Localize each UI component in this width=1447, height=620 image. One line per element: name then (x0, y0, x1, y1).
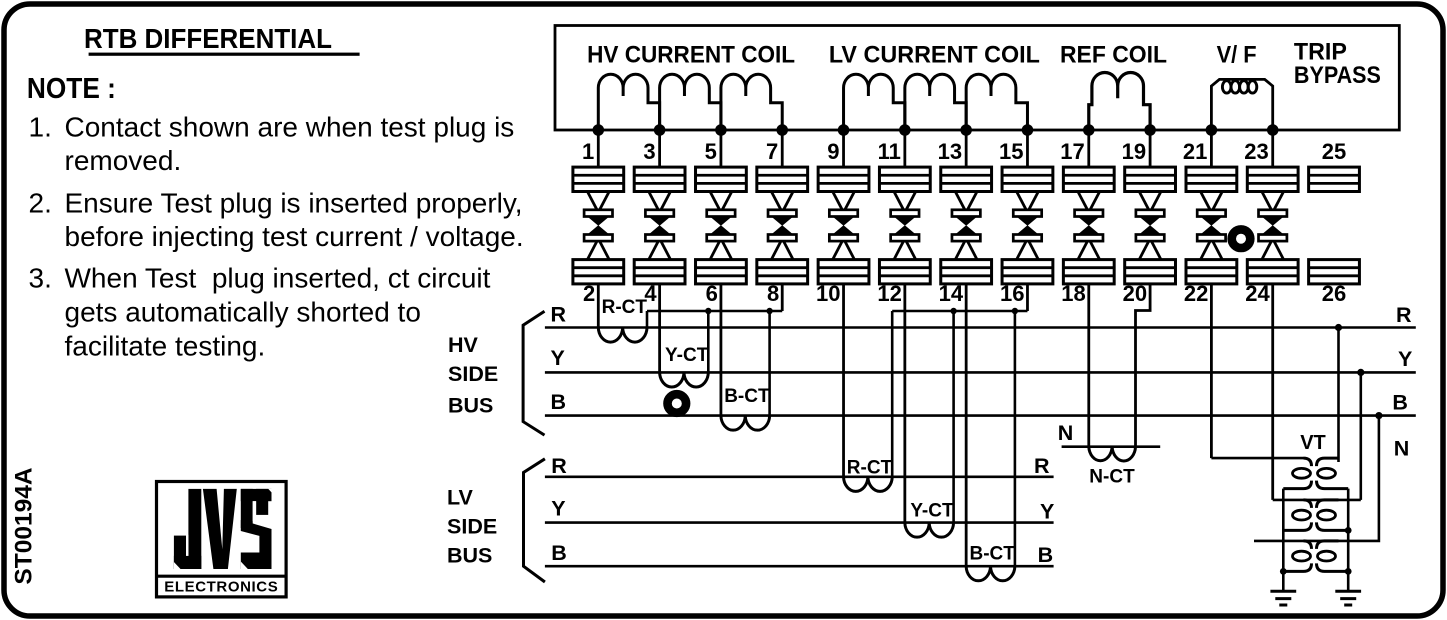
wire terminal 24 to VT (1271, 284, 1274, 500)
node LV link/B-CT junction (1012, 308, 1018, 314)
wire HV bus B (545, 414, 1416, 417)
node R tap for VT (1335, 324, 1342, 331)
svg-text:Y: Y (551, 346, 565, 370)
svg-text:before injecting test current: before injecting test current / voltage. (65, 221, 524, 252)
VT winding row2 right (1317, 500, 1349, 531)
svg-text:23: 23 (1244, 139, 1268, 164)
svg-text:17: 17 (1060, 139, 1084, 164)
wire terminal 16 to CT link (1026, 284, 1029, 311)
node terminal 5 junction (715, 124, 727, 136)
wire N line (1062, 445, 1161, 448)
svg-text:21: 21 (1183, 139, 1207, 164)
terminal block 17 (1063, 167, 1114, 191)
svg-text:11: 11 (878, 139, 901, 164)
svg-text:RTB DIFFERENTIAL: RTB DIFFERENTIAL (84, 23, 332, 54)
terminal block 2 (573, 260, 624, 284)
svg-text:B: B (1038, 543, 1054, 567)
svg-text:B-CT: B-CT (724, 386, 770, 407)
wire to terminal 13 (965, 130, 968, 167)
REF coil (terminals 17-19) (1089, 72, 1150, 130)
svg-text:ST00194A: ST00194A (11, 467, 38, 584)
svg-text:R: R (1396, 303, 1412, 327)
HV side bus bracket (523, 311, 544, 435)
node terminal 3 junction (654, 124, 666, 136)
wire terminal 12 to LV Y bus (903, 284, 906, 523)
svg-text:gets automatically shorted to: gets automatically shorted to (65, 297, 421, 328)
terminal block 1 (573, 167, 624, 191)
terminal block 5 (696, 167, 747, 191)
test contact 11/12 (891, 192, 919, 260)
node terminal 19 junction (1144, 124, 1156, 136)
wire terminal 8 to CT link (781, 284, 784, 311)
wire terminal 14 to LV B bus (965, 284, 968, 566)
mounting hole (HV bus area) (668, 394, 687, 413)
ground (VT primary star) (1270, 591, 1296, 605)
wire terminal 22 to VT (1210, 284, 1213, 458)
CT Y-CT (HV) (660, 372, 709, 387)
terminal block 24 (1247, 260, 1298, 284)
wire LV bus R (545, 475, 1054, 478)
wire Y-CT return stub (707, 311, 710, 372)
terminal block 3 (634, 167, 685, 191)
test contact 21/22 (1197, 192, 1225, 260)
wire R tap to VT row1 (1337, 328, 1340, 463)
svg-text:R: R (551, 303, 567, 327)
terminal block 9 (818, 167, 869, 191)
test contact 19/20 (1136, 192, 1164, 260)
coil group box (555, 26, 1399, 131)
HV current coil 2 (terminals 3-5) (660, 74, 721, 130)
svg-text:BUS: BUS (447, 544, 492, 568)
svg-text:R: R (551, 454, 567, 478)
wire LV bus Y (545, 521, 1054, 524)
LV current coil 1 (terminals 9-11) (844, 74, 905, 130)
test contact 3/4 (645, 192, 673, 260)
svg-text:SIDE: SIDE (448, 362, 498, 386)
mounting hole (terminal 23 area) (1232, 229, 1251, 248)
svg-text:REF COIL: REF COIL (1060, 42, 1167, 69)
node link/B-CT junction (766, 308, 772, 314)
terminal block 15 (1002, 167, 1053, 191)
wire terminal 6 to B bus (720, 284, 723, 416)
wire HV bus R (545, 326, 1416, 329)
CT R-CT (LV) (844, 477, 893, 492)
node terminal 17 junction (1083, 124, 1095, 136)
wire to terminal 7 (781, 130, 784, 167)
wire terminal 4 to Y bus (658, 284, 661, 373)
JVS Electronics logo (157, 482, 287, 597)
terminal block 18 (1063, 260, 1114, 284)
terminal block 4 (634, 260, 685, 284)
wire terminal 20 to N-CT (1136, 284, 1151, 447)
node VT left bus row3 junction (1280, 568, 1287, 575)
svg-text:B: B (1392, 391, 1408, 415)
terminal block 13 (941, 167, 992, 191)
terminal block 23 (1247, 167, 1298, 191)
svg-text:B: B (551, 390, 567, 414)
wire to terminal 23 (1271, 130, 1274, 167)
wire LV R-CT return stub (891, 311, 894, 477)
wire B tap to VT row3 (1254, 416, 1379, 541)
ground (VT secondary) (1335, 591, 1361, 605)
svg-text:Ensure Test plug is inserted p: Ensure Test plug is inserted properly, (65, 187, 523, 218)
svg-text:SIDE: SIDE (447, 515, 497, 539)
terminal block 25 (1309, 167, 1360, 191)
wire terminal 2 to R bus (597, 284, 600, 328)
test contact 9/10 (829, 192, 857, 260)
terminal block 12 (879, 260, 930, 284)
note list (29, 112, 524, 362)
node VT right bus row2 junction (1345, 527, 1352, 534)
VT winding row1 left (1283, 458, 1311, 489)
svg-text:R-CT: R-CT (602, 297, 648, 318)
svg-text:BYPASS: BYPASS (1294, 62, 1381, 89)
CT B-CT (LV) (966, 566, 1015, 581)
node terminal 23 junction (1267, 124, 1279, 136)
terminal block 22 (1186, 260, 1237, 284)
terminal block 8 (757, 260, 808, 284)
terminal block 7 (757, 167, 808, 191)
svg-text:13: 13 (938, 139, 962, 164)
node terminal 1 junction (593, 124, 605, 136)
svg-text:15: 15 (999, 139, 1023, 164)
svg-text:facilitate testing.: facilitate testing. (65, 331, 266, 362)
wire LV CT star link (892, 310, 1027, 313)
terminal block 19 (1125, 167, 1176, 191)
svg-text:N: N (1058, 421, 1074, 445)
svg-text:When Test plug inserted, ct c: When Test plug inserted, ct circuit (65, 263, 491, 294)
svg-text:V/ F: V/ F (1217, 42, 1257, 69)
svg-text:3.: 3. (29, 263, 52, 294)
terminal block 11 (879, 167, 930, 191)
terminal block 20 (1125, 260, 1176, 284)
VT winding row1 right (1317, 458, 1349, 489)
node terminal 9 junction (838, 124, 850, 136)
wire Y tap to VT row2 (1360, 372, 1363, 500)
wire B-CT return stub (768, 311, 771, 416)
svg-text:Y: Y (1398, 347, 1412, 371)
svg-text:HV CURRENT COIL: HV CURRENT COIL (587, 42, 795, 69)
svg-text:1: 1 (582, 139, 594, 164)
svg-text:B-CT: B-CT (970, 544, 1016, 565)
node VT right bus row3 junction (1345, 568, 1352, 575)
svg-text:N: N (1394, 437, 1410, 461)
wire to terminal 9 (842, 130, 845, 167)
wire terminal 10 to LV R bus (842, 284, 845, 477)
CT R-CT (HV) (598, 328, 647, 343)
node terminal 15 junction (1022, 124, 1034, 136)
wire to terminal 17 (1087, 130, 1090, 167)
svg-text:Y: Y (551, 496, 565, 520)
VT winding row3 left (1283, 541, 1311, 572)
HV current coil 1 (terminals 1-3) (598, 74, 659, 130)
test contact 17/18 (1075, 192, 1103, 260)
test contact 1/2 (584, 192, 612, 260)
wire HV CT star link (647, 310, 782, 313)
wire to terminal 3 (658, 130, 661, 167)
test contact 7/8 (768, 192, 796, 260)
svg-text:1.: 1. (29, 112, 52, 143)
svg-text:9: 9 (827, 139, 839, 164)
terminal block 21 (1186, 167, 1237, 191)
node link/Y-CT junction (705, 308, 711, 314)
wire to terminal 15 (1026, 130, 1029, 167)
svg-text:Contact shown are when test pl: Contact shown are when test plug is (65, 112, 515, 143)
node terminal 13 junction (960, 124, 972, 136)
svg-text:25: 25 (1322, 139, 1346, 164)
svg-text:HV: HV (448, 333, 479, 357)
svg-text:5: 5 (705, 139, 717, 164)
wire HV bus Y (545, 371, 1416, 374)
wire VT row2 lead (1273, 499, 1361, 502)
terminal block 14 (941, 260, 992, 284)
svg-text:N-CT: N-CT (1089, 467, 1135, 488)
CT B-CT (HV) (721, 416, 770, 431)
V/F coil (terminals 21-23) (1211, 79, 1272, 130)
wire terminal 18 to N line (1087, 284, 1090, 447)
svg-text:LV CURRENT COIL: LV CURRENT COIL (829, 42, 1040, 69)
node Y tap for VT (1357, 369, 1364, 376)
svg-text:removed.: removed. (65, 145, 182, 176)
VT winding row3 right (1317, 541, 1349, 572)
node terminal 11 junction (899, 124, 911, 136)
terminal block 26 (1309, 260, 1360, 284)
svg-text:2.: 2. (29, 187, 52, 218)
svg-text:Y-CT: Y-CT (665, 345, 709, 366)
HV current coil 3 (terminals 5-7) (721, 74, 782, 130)
wire to terminal 1 (597, 130, 600, 167)
svg-text:R: R (1034, 454, 1050, 478)
wire to terminal 5 (720, 130, 723, 167)
wire VT left neutral bus (1282, 489, 1285, 591)
test contact 5/6 (707, 192, 735, 260)
wire to terminal 19 (1149, 130, 1152, 167)
wire LV Y-CT return stub (952, 311, 955, 523)
svg-text:LV: LV (447, 486, 474, 510)
wire VT row1 left lead (1211, 457, 1303, 460)
wire LV B-CT return stub (1014, 311, 1017, 566)
test contact 23/24 (1259, 192, 1287, 260)
svg-text:7: 7 (766, 139, 778, 164)
test contact 13/14 (952, 192, 980, 260)
terminal block 10 (818, 260, 869, 284)
svg-text:3: 3 (643, 139, 655, 164)
wire VT right secondary bus (1347, 489, 1350, 591)
CT N-CT (1089, 447, 1136, 461)
node terminal 21 junction (1206, 124, 1218, 136)
LV current coil 3 (terminals 13-15) (966, 74, 1027, 130)
wire to terminal 11 (903, 130, 906, 167)
node B tap for VT (1375, 412, 1382, 419)
svg-text:B: B (551, 541, 567, 565)
svg-text:BUS: BUS (448, 393, 493, 417)
LV current coil 2 (terminals 11-13) (905, 74, 966, 130)
svg-text:Y-CT: Y-CT (910, 501, 954, 522)
svg-text:VT: VT (1300, 432, 1326, 454)
svg-text:NOTE :: NOTE : (27, 73, 116, 105)
terminal block 6 (696, 260, 747, 284)
svg-text:19: 19 (1122, 139, 1146, 164)
svg-text:Y: Y (1040, 500, 1054, 524)
node LV link/Y-CT junction (950, 308, 956, 314)
wire LV bus B (545, 565, 1054, 568)
svg-text:R-CT: R-CT (847, 458, 893, 479)
CT Y-CT (LV) (905, 523, 954, 538)
test contact 15/16 (1013, 192, 1041, 260)
VT winding row2 left (1283, 500, 1311, 531)
wire to terminal 21 (1210, 130, 1213, 167)
LV side bus bracket (524, 459, 545, 582)
node terminal 7 junction (776, 124, 788, 136)
wire R-CT return stub (646, 311, 649, 328)
terminal block 16 (1002, 260, 1053, 284)
svg-text:ELECTRONICS: ELECTRONICS (164, 579, 278, 596)
